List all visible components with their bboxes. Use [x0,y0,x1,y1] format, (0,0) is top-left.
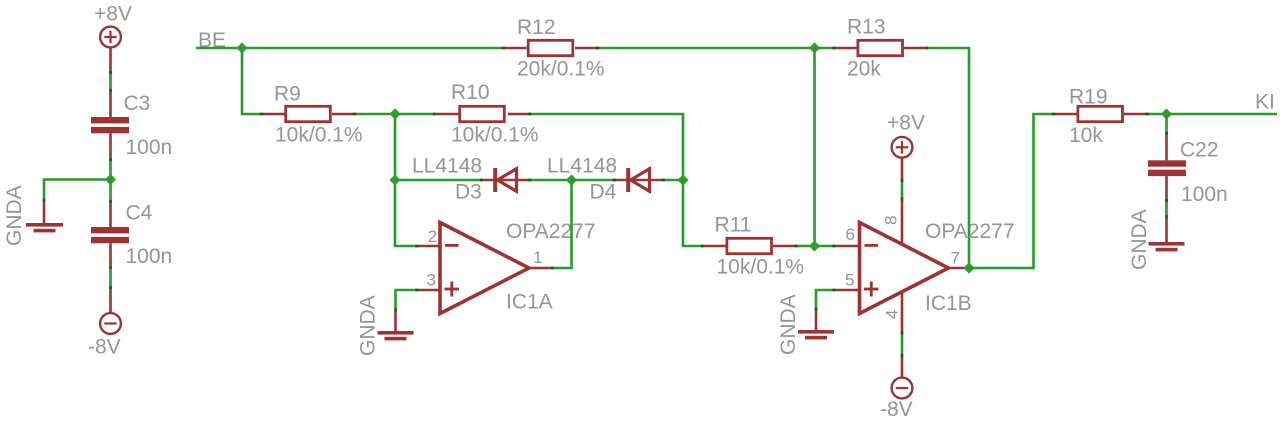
svg-text:10k/0.1%: 10k/0.1% [717,256,805,279]
op-amp U IC1A [419,220,596,314]
svg-text:C22: C22 [1180,139,1219,162]
svg-text:KI: KI [1255,91,1275,114]
power +8V at IC1B [887,111,925,179]
svg-text:10k: 10k [1069,124,1103,147]
wire vertical x=395 down to pin2 [395,114,419,246]
pin tip connection marks (dark green) [44,48,1167,357]
svg-text:10k/0.1%: 10k/0.1% [451,124,539,147]
resistor R12 [505,16,605,81]
junction at left rail x=110.5 [105,174,116,185]
svg-text:GNDA: GNDA [777,294,800,355]
svg-text:LL4148: LL4148 [547,155,617,178]
svg-text:C4: C4 [126,202,153,225]
wire diode row from junction 395 to D3 [395,179,483,182]
resistor R19 [1055,86,1146,148]
svg-text:1: 1 [533,248,542,267]
svg-text:3: 3 [427,271,436,290]
svg-text:OPA2277: OPA2277 [925,220,1015,243]
op-amp U IC1B [836,201,1015,332]
svg-text:D4: D4 [590,181,617,204]
junction at top rail x=814.5 [809,42,820,53]
capacitor C22 [1148,135,1228,206]
svg-text:-8V: -8V [880,398,913,421]
wire R12 to junction 814.5 [596,47,815,50]
ground GNDA at IC1B [777,294,834,355]
svg-text:D3: D3 [455,181,482,204]
wire junction to R13 [815,47,836,50]
junction at diode row x=571.5 [566,174,577,185]
svg-text:100n: 100n [126,136,173,159]
svg-text:7: 7 [951,249,960,268]
wire output row to R19 [969,114,1055,268]
svg-text:2: 2 [428,227,437,246]
junction at diode row x=395 [389,174,400,185]
svg-text:10k/0.1%: 10k/0.1% [275,124,363,147]
diode D3 LL4148 [412,155,528,204]
resistor R10 [436,81,539,147]
power -8V bottom-left [88,289,121,359]
wire junction to IC1B pin6 [815,245,836,248]
svg-text:IC1A: IC1A [506,291,553,314]
ground GNDA at C22 [1128,209,1185,270]
wire IC1B pin5 to ground [816,290,836,311]
svg-text:R11: R11 [715,214,752,237]
svg-text:6: 6 [846,225,855,244]
resistor R11 [704,214,804,279]
svg-text:R19: R19 [1069,86,1108,109]
svg-text:R10: R10 [451,81,490,104]
wire C22 to ground [1165,199,1168,219]
svg-text:+8V: +8V [887,111,925,134]
svg-text:8: 8 [882,216,901,225]
power -8V at IC1B [880,357,913,421]
svg-text:R12: R12 [517,16,556,39]
svg-text:R9: R9 [274,83,301,106]
svg-text:4: 4 [883,310,902,319]
junction at R9/R10 row x=395 [389,108,400,119]
wire junction to ground left [44,180,111,203]
power +8V top-left [94,3,132,72]
svg-text:GNDA: GNDA [357,295,380,356]
wire R19 to junction 1166.5 [1146,113,1167,116]
wire junction to R10 [395,113,436,116]
svg-text:OPA2277: OPA2277 [506,220,596,243]
wire BE rail to R12 [242,47,505,50]
svg-text:C3: C3 [124,92,151,115]
wire IC1A output up to diode row [551,180,572,268]
svg-text:-8V: -8V [88,336,121,359]
wire D4 to junction 683 [662,179,684,182]
wire junction to KI [1167,113,1278,116]
capacitor C3 [91,92,172,159]
ground GNDA at IC1A [357,295,414,356]
wire vertical x=815 top rail down to R11 row [813,48,816,246]
junction at KI row x=1166.5 [1161,108,1172,119]
svg-text:100n: 100n [1181,183,1228,206]
wire R9 to junction 395 [353,113,395,116]
wire +8V supply to IC1B pin8 [901,179,904,201]
junction at R11 row x=815 [809,240,820,251]
svg-text:5: 5 [845,271,854,290]
wire D3 to junction 571.5 [528,179,572,182]
svg-text:100n: 100n [126,245,173,268]
svg-text:20k: 20k [847,58,881,81]
diode D4 LL4148 [547,155,662,204]
ground GNDA left [3,185,63,246]
junction at BE rail x=242 [236,42,247,53]
resistor R9 [263,83,363,147]
svg-text:20k/0.1%: 20k/0.1% [517,58,605,81]
junction at diode row x=683 [677,174,688,185]
svg-text:GNDA: GNDA [1128,209,1151,270]
wire C3 to junction [109,158,112,180]
wire junction to C4 [109,180,112,204]
wire BE rail left [196,47,242,50]
wire +8V to C3 [109,71,112,92]
svg-text:GNDA: GNDA [3,185,26,246]
svg-text:+8V: +8V [94,3,132,26]
svg-text:R13: R13 [847,16,886,39]
wire C4 to -8V [109,266,112,289]
junction at output row x=969 [963,262,974,273]
wire junction to D4 [572,179,617,182]
resistor R13 [836,16,926,81]
capacitor C4 [91,202,172,269]
wire x=683 down to R11 row [683,180,704,246]
wire junction 242 down to R9 row [242,48,263,114]
wire IC1A pin3 to ground [396,290,419,312]
wire IC1B pin4 to -8V supply [901,332,904,358]
wire R11 to junction 815 [795,245,815,248]
svg-text:IC1B: IC1B [925,292,972,315]
svg-text:LL4148: LL4148 [412,155,482,178]
wire R13 right down to output row [925,48,969,268]
wire junction down to C22 [1165,114,1168,135]
wire R10 right down to diode row [528,114,683,180]
